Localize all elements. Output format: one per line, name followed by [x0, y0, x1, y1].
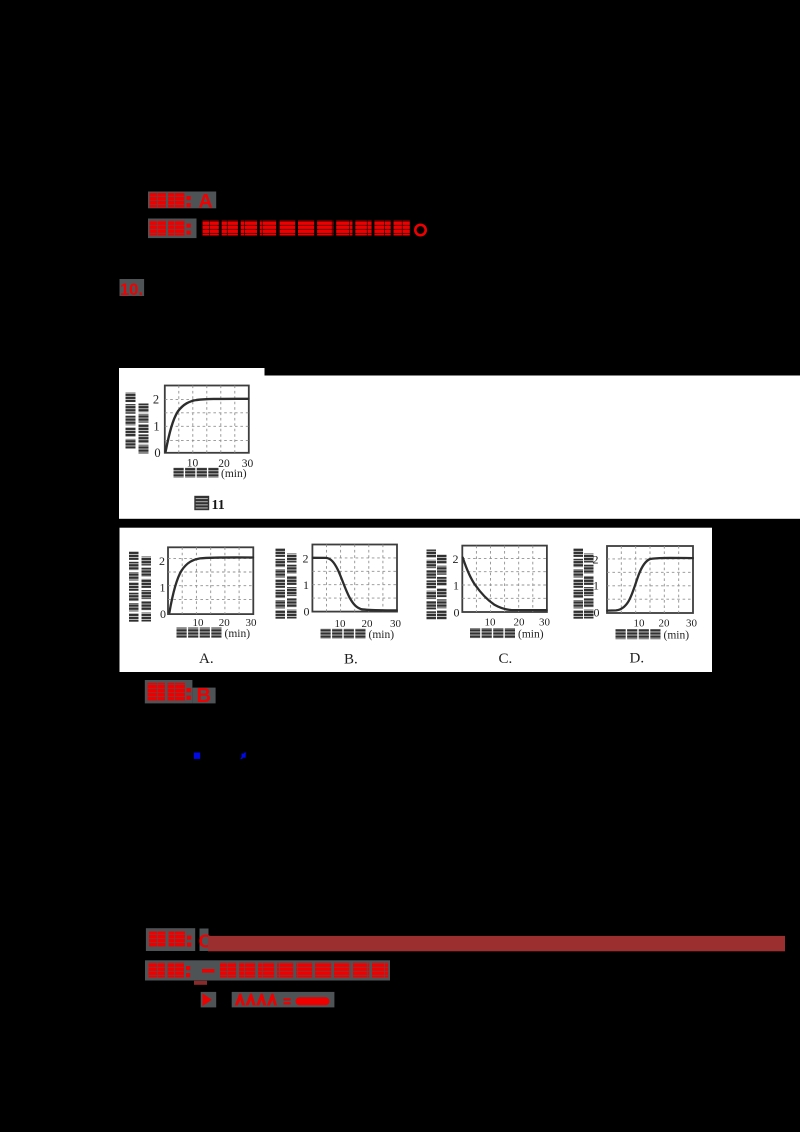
option letter B	[344, 652, 358, 668]
graph B x tick labels	[335, 618, 402, 630]
graph D x tick labels	[634, 618, 698, 630]
graph B frame	[312, 545, 397, 612]
graph C y-axis label (rotated CJK)	[427, 550, 447, 620]
svg-text:2: 2	[303, 552, 309, 566]
graph C y tick labels	[453, 552, 460, 620]
graph A curve	[169, 557, 253, 612]
explanation line 1 red text	[150, 221, 426, 236]
svg-text:10: 10	[335, 618, 347, 630]
svg-text:1: 1	[593, 579, 599, 593]
svg-text:2: 2	[593, 553, 599, 567]
answer line 1 highlight	[148, 192, 216, 209]
svg-text:2: 2	[153, 393, 159, 407]
option letter C	[499, 651, 513, 667]
svg-text:A: A	[199, 191, 213, 213]
svg-text:0: 0	[154, 446, 160, 460]
graph1 y-axis label (rotated CJK)	[126, 393, 149, 454]
graph D y-axis label (rotated CJK)	[574, 549, 594, 619]
graph D y tick labels	[593, 553, 600, 620]
formula highlight	[232, 992, 335, 1008]
graph1 frame	[165, 386, 249, 453]
graph C frame	[462, 546, 547, 612]
graph D curve	[607, 558, 693, 611]
svg-text:(min): (min)	[518, 629, 544, 641]
svg-text:20: 20	[659, 618, 671, 630]
svg-text:0: 0	[304, 605, 310, 619]
answer B highlight part1	[145, 680, 193, 703]
graph D x-axis label	[616, 629, 690, 642]
graph A x-axis label	[177, 628, 251, 641]
question number highlight	[120, 279, 145, 296]
graph A frame	[168, 547, 253, 614]
svg-text:1: 1	[303, 578, 309, 592]
blue mark 2	[240, 753, 246, 760]
graph C x-axis label	[470, 628, 544, 641]
answer line 1 red text	[150, 191, 213, 213]
svg-text:0: 0	[454, 606, 460, 620]
graph B y tick labels	[303, 552, 310, 619]
white panel 1	[119, 376, 800, 519]
svg-text:D.: D.	[630, 651, 645, 667]
graph A grid	[168, 547, 253, 614]
explanation line 2 underline remnant	[194, 981, 207, 985]
option letter D	[630, 651, 645, 667]
svg-text:30: 30	[539, 617, 551, 629]
svg-text:0: 0	[160, 607, 166, 621]
blue mark 1	[194, 753, 200, 759]
answer B highlight part2	[192, 688, 215, 704]
white panel 2	[120, 528, 713, 672]
answer B red text	[148, 683, 211, 707]
graph1 curve	[166, 399, 249, 452]
svg-text:10: 10	[193, 617, 205, 629]
graph D frame	[607, 546, 693, 613]
explanation line 2 highlight	[145, 960, 390, 980]
question number 10.	[120, 281, 143, 299]
graph B curve	[313, 558, 397, 611]
svg-text:(min): (min)	[664, 630, 690, 642]
white panel 1 notch	[119, 368, 265, 377]
svg-text:20: 20	[514, 617, 526, 629]
svg-text:30: 30	[686, 618, 698, 630]
graph A x tick labels	[193, 617, 258, 629]
graph1 grid	[165, 386, 249, 453]
svg-text:B: B	[197, 685, 211, 707]
svg-text:10: 10	[485, 617, 497, 629]
svg-text:0: 0	[594, 606, 600, 620]
svg-text:B.: B.	[344, 652, 358, 668]
graph A y tick labels	[159, 554, 166, 621]
svg-text:1: 1	[453, 579, 459, 593]
figure caption 图11	[195, 497, 225, 514]
svg-text:C.: C.	[499, 651, 513, 667]
graph C curve	[463, 558, 547, 611]
svg-text:2: 2	[453, 552, 459, 566]
explanation line 2 red text	[149, 963, 389, 978]
svg-text:2: 2	[159, 554, 165, 568]
graph C grid	[462, 546, 547, 612]
formula bullet	[203, 993, 212, 1006]
graph B y-axis label (rotated CJK)	[276, 549, 297, 619]
svg-text:(min): (min)	[221, 468, 247, 480]
formula red text	[235, 994, 330, 1006]
graph B x-axis label	[321, 629, 395, 642]
graph B grid	[312, 545, 397, 612]
graph D grid	[607, 546, 693, 613]
svg-text:11: 11	[212, 498, 225, 513]
graph1 x ticks	[187, 458, 254, 471]
graph1 y ticks	[153, 393, 161, 461]
answer C red text	[149, 931, 212, 952]
svg-text:10.: 10.	[120, 281, 143, 299]
svg-text:(min): (min)	[225, 628, 251, 640]
svg-text:10: 10	[634, 618, 646, 630]
svg-text:1: 1	[160, 581, 166, 595]
dark red bar	[208, 936, 785, 951]
svg-text:(min): (min)	[369, 629, 395, 641]
explanation line 1 highlight	[148, 219, 197, 239]
formula bullet highlight	[201, 992, 217, 1008]
answer C highlight	[146, 928, 209, 951]
svg-text:A.: A.	[199, 651, 214, 667]
svg-text:1: 1	[153, 420, 159, 434]
graph1 x-axis label	[174, 468, 247, 481]
option letter A	[199, 651, 214, 667]
graph A y-axis label (rotated CJK)	[129, 552, 151, 622]
graph C x tick labels	[485, 617, 551, 629]
